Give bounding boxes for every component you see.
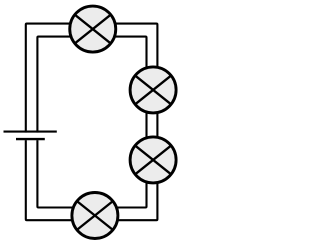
battery B1 short plate	[16, 138, 45, 140]
lamp L2 (upper right)	[130, 67, 176, 113]
wire outer loop	[26, 24, 158, 221]
battery gap (wire break between plates)	[22, 133, 43, 141]
lamp L1 (top)	[70, 6, 116, 52]
battery B1 long plate	[4, 130, 57, 132]
wire inner loop	[37, 37, 146, 208]
lamp L3 (lower right)	[130, 137, 176, 183]
lamp L4 (bottom)	[72, 193, 118, 239]
